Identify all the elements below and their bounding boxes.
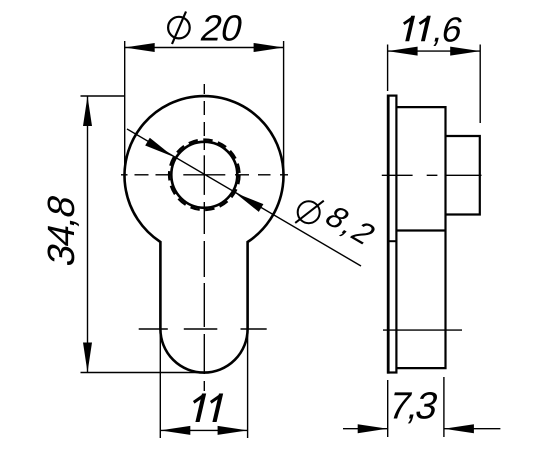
dimension Ø8,2 leader line <box>127 129 361 266</box>
arrow 11 left <box>160 426 190 435</box>
arrow Ø20 left <box>125 43 155 52</box>
arrow 11,6 left <box>388 47 418 56</box>
dimension 7,3 <box>343 377 500 437</box>
side view plate edge mark <box>388 240 396 242</box>
side view centerline <box>382 174 482 176</box>
horizontal centerline front view <box>121 174 288 176</box>
Ø8,2 value text <box>318 201 385 252</box>
vertical centerline front view <box>203 84 205 391</box>
side view internal edge line <box>396 229 445 231</box>
dimension 11 (stem width) <box>160 332 247 438</box>
side view bottom arc line <box>383 329 462 331</box>
side view: front plate (flange) <box>388 96 396 373</box>
Ø20 value text <box>197 8 247 48</box>
arrow 34,8 top <box>83 96 92 126</box>
hole circle Ø8.2 <box>171 142 237 208</box>
arrow 7,3 right (outside) <box>444 424 474 433</box>
11,6 value text <box>398 10 466 49</box>
7,3 value text <box>385 385 441 427</box>
arrow 11 right <box>218 426 248 435</box>
side view: boss protrusion <box>446 136 480 215</box>
Ø symbol for Ø8,2 (rotated) <box>298 201 320 223</box>
arrow Ø20 right <box>254 43 284 52</box>
dashed circle (hidden detail) <box>169 140 240 211</box>
dimension 11,6 <box>388 45 481 124</box>
arrow 34,8 bottom <box>83 343 92 373</box>
arrow Ø8,2 lower-right <box>235 193 263 212</box>
34,8 value text (rotated) <box>40 192 82 270</box>
front view outline (keyhole shape) <box>124 96 283 373</box>
Ø symbol for Ø20 <box>168 17 190 39</box>
arrow 7,3 left (outside) <box>358 424 388 433</box>
11 value text <box>189 394 222 423</box>
dimension Ø20 <box>125 41 284 172</box>
side view: body <box>396 107 445 368</box>
dimension 34,8 <box>81 96 204 373</box>
arrow 11,6 right <box>450 47 480 56</box>
stem bottom arc centerline <box>139 328 267 330</box>
arrow Ø8,2 upper-left <box>145 138 173 157</box>
side view plate front face edge (bold) <box>387 95 390 374</box>
svg-text:34,8: 34,8 <box>40 192 82 270</box>
